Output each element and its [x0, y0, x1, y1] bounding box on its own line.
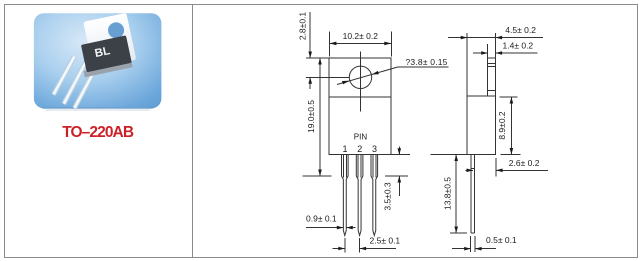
mounting hole circle	[349, 66, 371, 88]
tile bottom rim shade	[43, 107, 152, 109]
side view tab	[488, 58, 496, 96]
svg-text:0.5± 0.1: 0.5± 0.1	[486, 235, 517, 245]
dimension 13.8±0.5 (lead length)	[431, 155, 468, 234]
hole diameter leader ?3.8±0.15	[337, 57, 448, 85]
lead 2 front	[356, 155, 363, 236]
dimension 2.8±0.1	[298, 12, 350, 89]
lead 3 front	[371, 155, 378, 236]
lead 3	[75, 56, 103, 108]
dimension 19.0±0.5	[303, 58, 332, 176]
svg-text:4.5± 0.2: 4.5± 0.2	[505, 25, 536, 35]
dimension 4.5±0.2 (overall depth)	[448, 25, 543, 96]
side view lead	[470, 155, 472, 234]
svg-text:?3.8± 0.15: ?3.8± 0.15	[406, 57, 448, 67]
svg-text:2: 2	[357, 144, 362, 154]
plastic body	[81, 35, 132, 72]
svg-text:2.5± 0.1: 2.5± 0.1	[370, 236, 401, 246]
svg-text:3.5±0.3: 3.5±0.3	[382, 182, 392, 211]
lead 2	[64, 58, 88, 104]
dimension 3.5±0.3 (lead shoulder length)	[382, 147, 410, 211]
svg-text:3: 3	[372, 144, 377, 154]
tab/body separator line	[329, 96, 391, 98]
dimension 8.9±0.2 (body height)	[497, 97, 520, 155]
svg-text:1.4± 0.2: 1.4± 0.2	[503, 41, 534, 51]
svg-text:8.9±0.2: 8.9±0.2	[497, 111, 507, 140]
product icon: blue rounded tile	[34, 13, 161, 108]
metal tab	[83, 13, 136, 69]
svg-text:2.6± 0.2: 2.6± 0.2	[509, 158, 540, 168]
svg-text:10.2± 0.2: 10.2± 0.2	[343, 31, 379, 41]
dimension 2.5±0.1 (lead pitch)	[333, 236, 401, 253]
dimension 0.5±0.1 (lead thickness)	[452, 235, 517, 252]
svg-text:PIN: PIN	[354, 133, 368, 142]
vertical center line	[360, 52, 362, 112]
lead 1 front	[342, 155, 349, 236]
svg-text:0.9± 0.1: 0.9± 0.1	[306, 214, 337, 224]
panel divider line	[192, 5, 194, 258]
svg-text:TO–220AB: TO–220AB	[62, 124, 134, 141]
side view body	[467, 96, 495, 154]
svg-text:1: 1	[342, 144, 347, 154]
svg-text:19.0±0.5: 19.0±0.5	[306, 100, 316, 133]
tab hole slot lines	[488, 63, 496, 65]
tab step line	[488, 90, 496, 92]
front view outline	[329, 58, 391, 155]
package bottom metal edge	[83, 61, 132, 78]
dimension 10.2±0.2	[329, 31, 391, 57]
TO-220 package 3D art	[54, 56, 103, 108]
dimension 0.9±0.1 (lead width)	[306, 214, 356, 230]
lead 1	[54, 57, 75, 95]
svg-text:13.8±0.5: 13.8±0.5	[443, 177, 453, 210]
dimension 1.4±0.2 (tab thickness)	[473, 41, 538, 59]
tab hole	[107, 21, 126, 40]
svg-text:2.8±0.1: 2.8±0.1	[298, 12, 308, 41]
dimension 2.6±0.2 (lead to back face)	[466, 158, 548, 177]
